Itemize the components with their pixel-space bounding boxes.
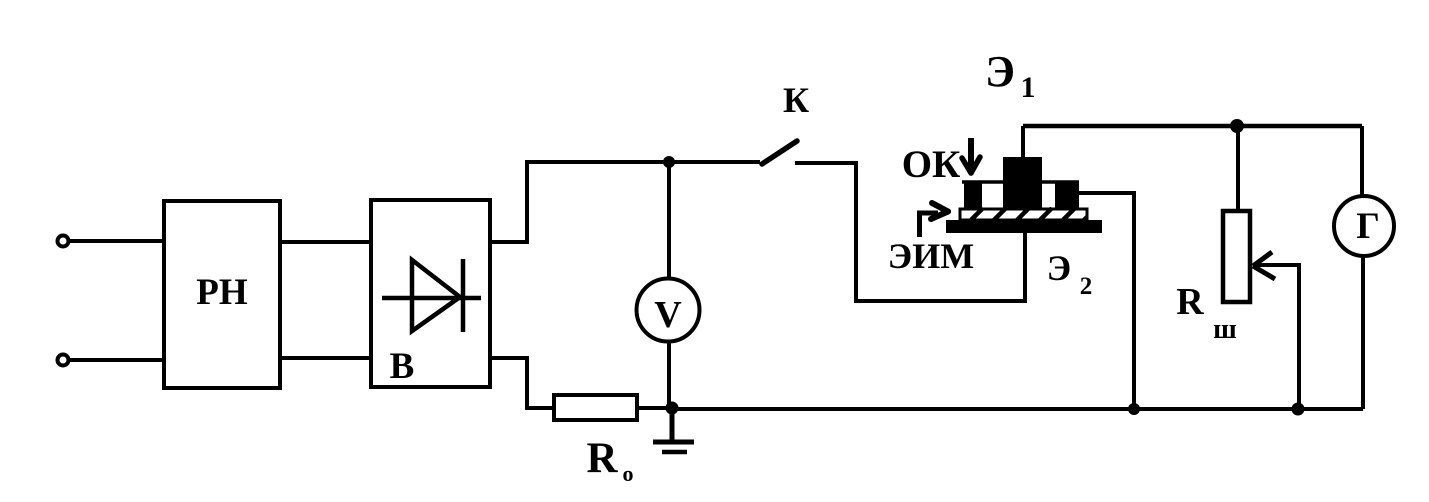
electrode E2 bottom bar bbox=[946, 220, 1102, 233]
wire Ro to junction bbox=[639, 406, 672, 410]
svg-text:Э: Э bbox=[985, 47, 1015, 96]
middle row top line bbox=[962, 180, 1079, 184]
electrode E1 top block bbox=[1003, 157, 1042, 208]
hatched strip bbox=[960, 209, 1087, 220]
wire voltmeter to bottom rail bbox=[667, 342, 671, 409]
wire galvanometer to rail bbox=[1361, 257, 1365, 409]
svg-text:Г: Г bbox=[1356, 206, 1380, 247]
bottom rail bbox=[672, 407, 1363, 411]
wire top rail down to galvanometer bbox=[1360, 126, 1364, 196]
bent arrow EIM pointer bbox=[920, 213, 939, 237]
diode cathode bar bbox=[461, 259, 466, 332]
wire B top output bbox=[488, 162, 760, 242]
wire terminal2 to PH bbox=[70, 358, 164, 362]
svg-text:К: К bbox=[783, 80, 809, 120]
diode anode wire bbox=[382, 296, 481, 301]
input terminal top-left bbox=[58, 236, 69, 247]
wire B bottom output to Ro bbox=[488, 358, 554, 408]
resistor Rsh bbox=[1223, 211, 1250, 302]
wire E2 right electrode down to rail bbox=[1079, 193, 1134, 409]
wire PH to B top bbox=[281, 240, 371, 244]
svg-text:1: 1 bbox=[1021, 71, 1036, 104]
top rail bbox=[1023, 124, 1362, 129]
middle row right black segment bbox=[1055, 181, 1079, 208]
wire top junction down to Rsh bbox=[1236, 126, 1240, 211]
svg-text:ОК: ОК bbox=[902, 143, 961, 186]
cell top electrode wire bbox=[1021, 126, 1025, 158]
voltmeter V bbox=[637, 279, 700, 342]
svg-text:2: 2 bbox=[1080, 273, 1093, 300]
svg-text:ЭИМ: ЭИМ bbox=[888, 236, 974, 276]
resistor Ro bbox=[554, 395, 637, 420]
svg-text:о: о bbox=[623, 461, 634, 486]
ground bbox=[670, 408, 675, 441]
svg-text:Э: Э bbox=[1047, 248, 1071, 288]
voltage regulator PH box bbox=[164, 201, 280, 388]
wiper wire to rail bbox=[1253, 265, 1299, 409]
wire PH to B bottom bbox=[281, 356, 371, 360]
junction dot rail right bbox=[1292, 403, 1305, 416]
input terminal bottom-left bbox=[58, 355, 69, 366]
junction dot top rail bbox=[1230, 119, 1244, 133]
svg-text:РН: РН bbox=[196, 272, 248, 313]
svg-text:R: R bbox=[586, 435, 618, 482]
svg-text:R: R bbox=[1176, 281, 1204, 323]
wire terminal1 to PH bbox=[70, 239, 164, 243]
middle row left black segment bbox=[964, 181, 982, 208]
wire switch to cell top electrode bbox=[795, 163, 1025, 301]
svg-text:В: В bbox=[390, 346, 415, 387]
rectifier B box bbox=[371, 200, 490, 387]
wire junction to voltmeter bbox=[667, 162, 671, 278]
junction dot rail left bbox=[1128, 403, 1140, 415]
svg-text:ш: ш bbox=[1213, 314, 1237, 345]
diode triangle bbox=[412, 260, 460, 331]
junction dot at ground bbox=[666, 402, 679, 415]
galvanometer G bbox=[1334, 196, 1394, 256]
wiper arrow bbox=[1253, 252, 1272, 266]
switch K blade bbox=[762, 141, 797, 164]
junction dot above voltmeter bbox=[663, 156, 675, 168]
svg-text:V: V bbox=[654, 294, 682, 336]
down arrow bbox=[968, 138, 974, 168]
